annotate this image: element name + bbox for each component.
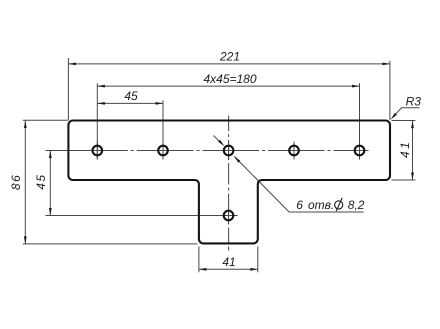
crosshair hole 3 <box>220 150 238 152</box>
extension line hole1 vertical <box>96 83 98 159</box>
svg-text:86: 86 <box>9 174 23 190</box>
arrow callout lower <box>234 156 240 163</box>
dimension line 41 bottom <box>199 268 258 270</box>
crosshair hole 4 <box>285 150 303 152</box>
dimension line 86 <box>24 121 26 244</box>
svg-text:45: 45 <box>124 89 138 103</box>
extension line hole2 vertical <box>162 100 164 159</box>
extension line 86 top <box>23 119 69 121</box>
arrow 41right down <box>411 173 414 181</box>
arrow 86 down <box>24 236 27 244</box>
svg-text:41: 41 <box>398 140 412 158</box>
svg-text:R3: R3 <box>406 95 422 109</box>
arrow 41right up <box>411 121 414 129</box>
arrow 45top left <box>97 102 105 105</box>
arrow 86 up <box>24 121 27 129</box>
arrow 45left down <box>49 208 52 216</box>
arrow 4x45 left <box>97 85 105 88</box>
extension line 45 left top / hole row <box>46 150 107 152</box>
extension line 86 bottom <box>23 243 198 245</box>
svg-text:4x45=180: 4x45=180 <box>203 72 256 86</box>
centerline horizontal dash-dot through holes <box>88 150 128 152</box>
centerline vertical dash-dot through stem <box>228 116 230 132</box>
plate outline <box>68 121 390 244</box>
diameter symbol <box>335 198 343 211</box>
hole 1 <box>93 146 103 156</box>
extension line 41 bottom left <box>198 246 200 272</box>
arrow 221 right <box>382 63 390 66</box>
dimension line 221 <box>68 63 390 65</box>
dimension line 45 left <box>49 151 51 216</box>
svg-text:41: 41 <box>222 255 235 269</box>
dimension line 41 right <box>412 121 414 181</box>
arrow callout upper <box>218 140 224 147</box>
crosshair stem hole <box>220 215 238 217</box>
svg-text:8,2: 8,2 <box>348 198 365 212</box>
leader line R3 <box>393 108 420 118</box>
hole 2 <box>158 146 168 156</box>
hole 3 <box>224 146 234 156</box>
extension line 41 right bottom <box>392 179 416 181</box>
dimension line 4x45=180 <box>97 85 359 87</box>
stem hole <box>224 211 234 221</box>
leader line hole callout <box>214 136 223 145</box>
hole 4 <box>289 146 299 156</box>
hole 5 <box>355 146 365 156</box>
svg-text:6: 6 <box>296 198 303 212</box>
dimension line 45 top <box>97 102 163 104</box>
arrow 41bottom left <box>199 268 207 271</box>
svg-text:45: 45 <box>34 173 48 189</box>
svg-text:221: 221 <box>219 49 240 63</box>
arrow 45left up <box>49 151 52 159</box>
crosshair hole 5 <box>351 150 369 152</box>
extension line 41 bottom right <box>257 246 259 272</box>
arrow 45top right <box>156 102 164 105</box>
extension line 45 left bottom / stem hole centre <box>46 215 238 217</box>
arrow R3 <box>391 113 397 120</box>
crosshair hole 1 <box>88 150 106 152</box>
extension line 221 right <box>389 61 391 120</box>
arrow 4x45 right <box>352 85 360 88</box>
svg-text:отв.: отв. <box>308 198 334 212</box>
extension line 41 right top <box>392 120 416 122</box>
extension line 221 left <box>67 58 69 120</box>
arrow 221 left <box>68 63 76 66</box>
extension line hole5 vertical <box>359 83 361 159</box>
crosshair hole 2 <box>154 150 172 152</box>
arrow 41bottom right <box>250 268 257 271</box>
